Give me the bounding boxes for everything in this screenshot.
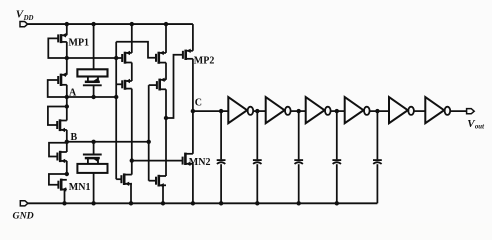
wire capacitor drop 3 xyxy=(298,111,300,159)
wire MN2 source to GND xyxy=(192,164,194,204)
capacitor C1 xyxy=(217,160,226,164)
svg-text:GND: GND xyxy=(13,211,34,222)
transistor M4 (diode-connected NMOS) xyxy=(57,151,66,163)
wire VDD to T1 source xyxy=(131,24,133,53)
capacitor C3 xyxy=(294,160,303,164)
wire T4 drain to node D xyxy=(165,89,167,118)
wire inverter 1 output to inverter 2 xyxy=(253,110,266,112)
transistor T4 (PMOS, gate node B) xyxy=(157,78,166,91)
inverter U1 xyxy=(228,97,253,123)
wire capacitor drop 2 xyxy=(256,111,258,159)
wire T3 drain to T4 source xyxy=(165,63,167,80)
node T4-riser/node-B junction xyxy=(147,140,151,144)
wire MN2 gate wire xyxy=(132,160,183,162)
node VDD/column-2 junction xyxy=(164,22,168,26)
wire T2 drain down column-1 xyxy=(131,89,133,175)
transistor M3 (diode-connected NMOS) xyxy=(57,119,67,132)
wire T5 source to GND xyxy=(130,183,133,185)
node chain junction 3 xyxy=(297,109,301,113)
wire T7 gate lead xyxy=(149,180,156,182)
wire node D down to T7 drain xyxy=(165,118,167,176)
wire inverter 6 output xyxy=(450,110,466,112)
wire node B to M4 drain xyxy=(66,142,68,152)
capacitor C2 xyxy=(253,160,262,164)
node chain junction 4 xyxy=(335,109,339,113)
node chain junction 5 xyxy=(375,109,379,113)
GND pentagon terminal xyxy=(20,201,28,206)
wire node-A top loop to T3 gate xyxy=(116,42,156,58)
wire VDD rail xyxy=(28,23,193,25)
node lower-cap to GND junction xyxy=(91,201,95,205)
wire T4 gate riser from node B xyxy=(148,85,150,181)
node column-1 / MN2-gate-wire junction xyxy=(130,158,134,162)
wire segment MP1 drain to M2 source xyxy=(66,58,68,75)
VDD pentagon terminal xyxy=(20,22,28,27)
wire M3 source to node B xyxy=(66,130,68,142)
wire MN1 source to GND xyxy=(61,188,64,190)
node A junction xyxy=(65,95,69,99)
wire inverter 3 output to inverter 4 xyxy=(331,110,345,112)
wire capacitor drop 5 xyxy=(376,111,378,159)
wire node A to M3 drain xyxy=(66,97,68,121)
svg-text:DD: DD xyxy=(23,15,34,22)
wire MP1-drain to T1 gate xyxy=(67,57,122,59)
capacitor MOS-cap lower (node B gate) xyxy=(77,142,107,204)
inverter U4 xyxy=(345,97,370,123)
wire capacitor drop 1 xyxy=(220,111,222,159)
node GND junction 3 xyxy=(297,201,301,205)
wire MP1 drain xyxy=(66,42,68,58)
transistor M2 (diode-connected PMOS to node A) xyxy=(58,73,67,86)
Vout pentagon terminal xyxy=(467,109,475,114)
node D junction xyxy=(164,116,168,120)
transistor T7 (NMOS, gate node B) xyxy=(156,175,166,188)
wire inverter 4 output to inverter 5 xyxy=(370,110,389,112)
node C junction xyxy=(191,109,195,113)
wire M4 gate loop xyxy=(49,143,67,157)
svg-text:MN1: MN1 xyxy=(69,182,91,193)
transistor MP1 (diode-connected PMOS) xyxy=(58,33,67,43)
node GND/column-1 junction xyxy=(129,201,133,205)
svg-text:MP2: MP2 xyxy=(194,55,215,66)
wire T7 source to GND xyxy=(159,184,163,186)
wire MP2 drain to node C xyxy=(192,59,194,111)
wire GND rail xyxy=(28,202,378,204)
node M3 gate-loop junction xyxy=(65,104,69,108)
wire M4 source down xyxy=(66,161,68,174)
wire node B horizontal xyxy=(67,141,149,143)
wire MN1 gate loop xyxy=(49,174,67,185)
wire MP1 gate loop xyxy=(48,38,67,58)
wire MP2 gate to node D xyxy=(166,55,183,118)
node lower-cap stem on node B xyxy=(91,140,95,144)
node VDD/upper-cap junction xyxy=(91,22,95,26)
transistor MN2 (NMOS output) xyxy=(183,153,193,166)
wire node C to inverter 1 xyxy=(193,110,228,112)
capacitor C4 xyxy=(332,160,341,164)
node VDD/column-1 junction xyxy=(130,22,134,26)
wire node C to MN2 drain xyxy=(192,111,194,154)
wire capacitor drop 4 xyxy=(336,111,338,159)
node GND/column-2 junction xyxy=(161,201,165,205)
wire VDD to T3 source xyxy=(165,24,167,53)
node chain junction 2 xyxy=(255,109,259,113)
wire VDD to MP1 source xyxy=(66,24,68,35)
node GND junction 2 xyxy=(255,201,259,205)
transistor MN1 (diode-connected NMOS) xyxy=(58,179,66,192)
capacitor C5 xyxy=(373,160,382,164)
wire M2 drain to node A xyxy=(66,85,68,97)
wire node A horizontal xyxy=(67,96,116,98)
node GND junction 1 xyxy=(219,201,223,205)
inverter U5 xyxy=(389,97,414,123)
wire node-A riser vertical xyxy=(115,42,117,179)
transistor MP2 (PMOS output) xyxy=(183,49,193,60)
transistor T2 (PMOS, gate node A) xyxy=(116,79,132,90)
node GND junction 4 xyxy=(335,201,339,205)
inverter U2 xyxy=(266,97,291,123)
capacitor MOS-cap upper (node A gate) xyxy=(77,24,107,97)
wire VDD rail corner to MP2 source xyxy=(192,24,194,51)
svg-text:C: C xyxy=(195,98,202,109)
node B junction xyxy=(65,140,69,144)
svg-text:out: out xyxy=(475,124,485,131)
node GND-left junction xyxy=(62,201,66,205)
svg-text:MP1: MP1 xyxy=(69,38,90,49)
node riser/node-A junction xyxy=(114,95,118,99)
node GND/MN2 junction xyxy=(191,201,195,205)
inverter U6 xyxy=(425,97,450,123)
transistor T1 (PMOS, gate node A) xyxy=(122,51,132,64)
node MP1 drain junction xyxy=(65,56,69,60)
wire inverter 2 output to inverter 3 xyxy=(291,110,306,112)
node chain junction 1 xyxy=(219,109,223,113)
node VDD-left junction xyxy=(65,22,69,26)
transistor T5 (NMOS, gate node A) xyxy=(116,173,132,186)
transistor T3 (PMOS, gate node A) xyxy=(156,51,166,64)
node upper-cap gate on node A xyxy=(91,95,95,99)
node riser/MP1-drain-wire junction xyxy=(114,56,118,60)
inverter U3 xyxy=(306,97,331,123)
wire inverter 5 output to inverter 6 xyxy=(414,110,425,112)
wire M2 gate loop to node A xyxy=(48,80,67,97)
wire T1 drain to T2 source xyxy=(131,63,133,82)
wire M3 gate loop xyxy=(48,107,67,126)
node MN1 drain junction xyxy=(65,172,69,176)
